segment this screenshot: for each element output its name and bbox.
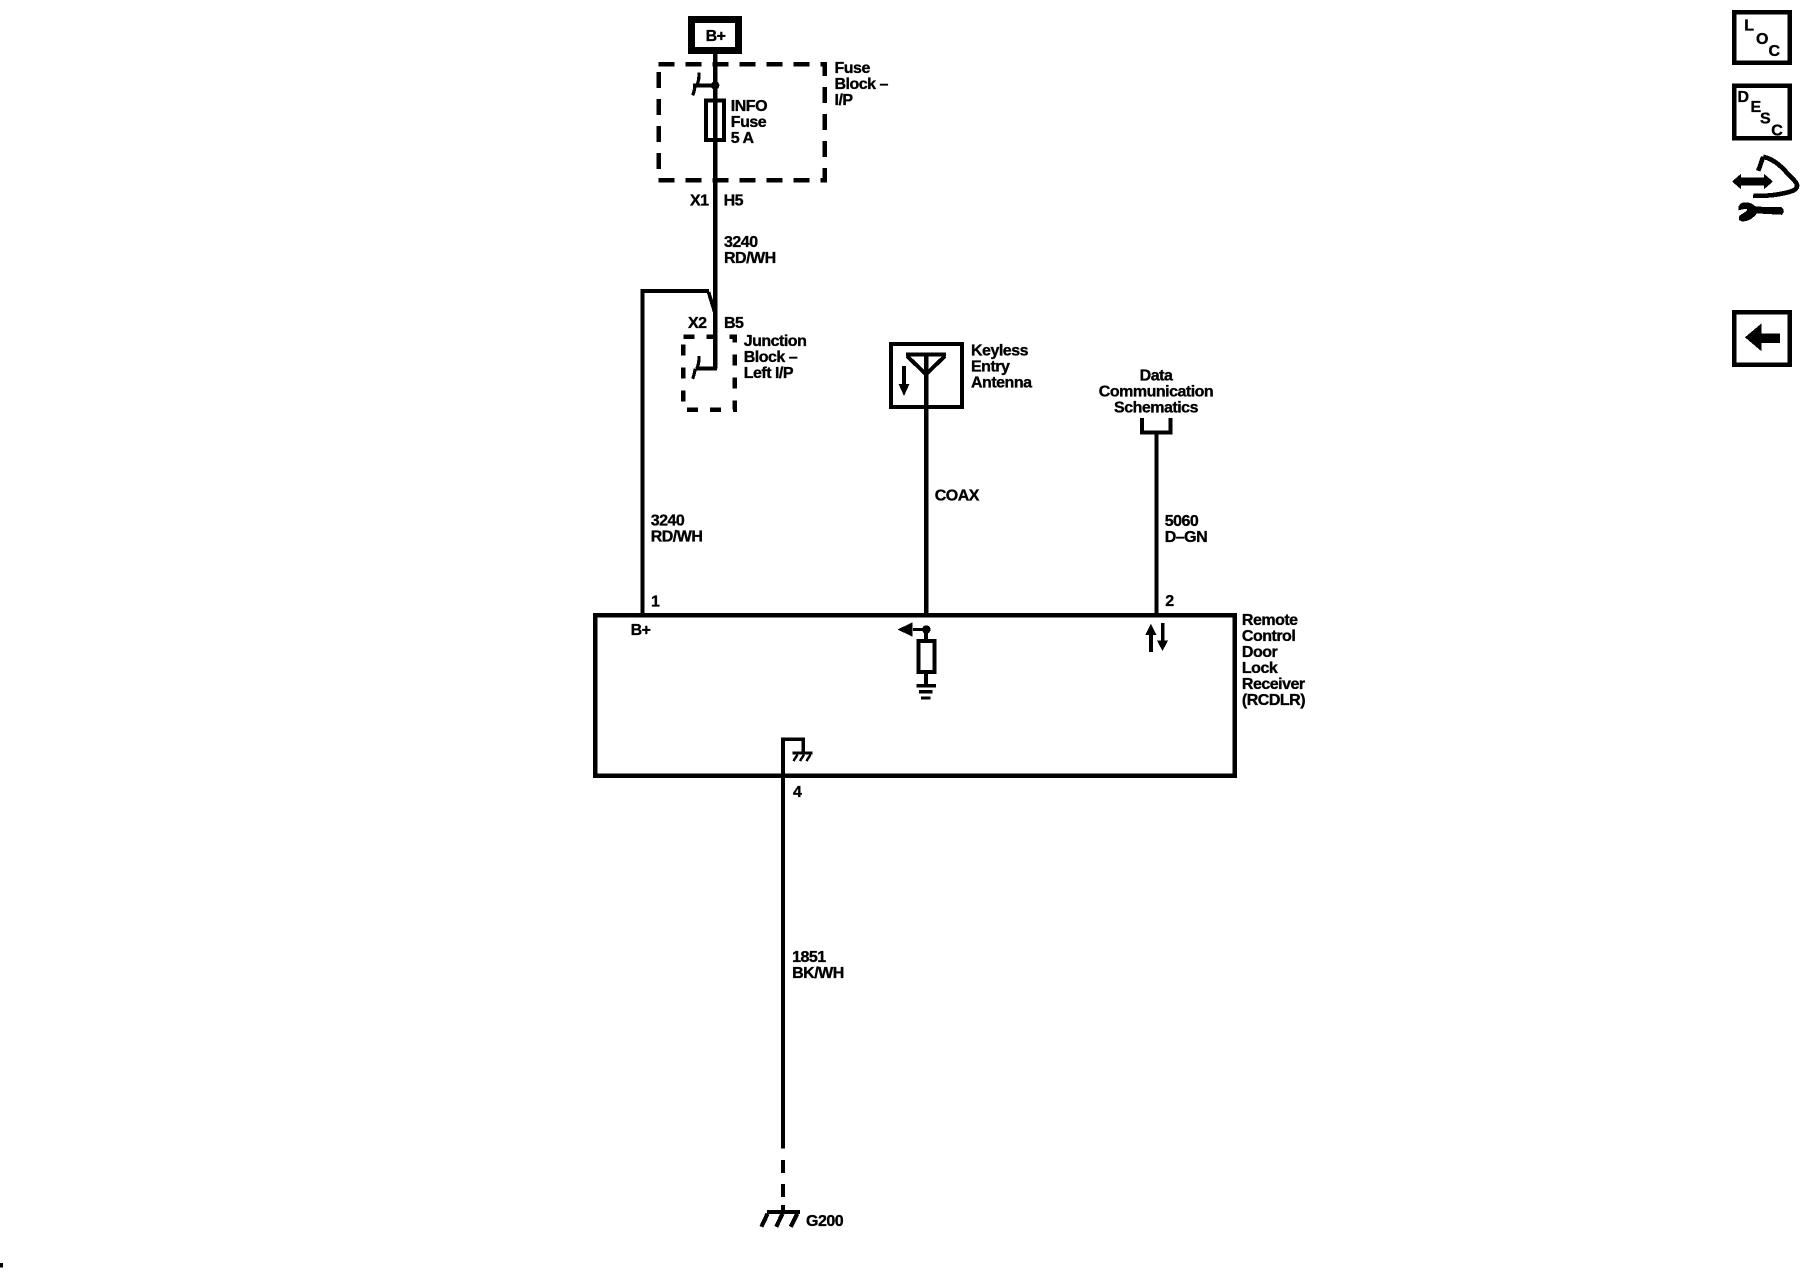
svg-text:5060: 5060 (1165, 513, 1199, 530)
svg-text:Block –: Block – (744, 349, 798, 366)
svg-text:Entry: Entry (971, 359, 1010, 376)
svg-text:Fuse: Fuse (731, 114, 767, 131)
svg-text:H5: H5 (724, 193, 744, 210)
svg-text:RD/WH: RD/WH (724, 250, 776, 267)
svg-text:G200: G200 (806, 1213, 844, 1230)
svg-text:Keyless: Keyless (971, 343, 1029, 360)
svg-text:C: C (1771, 122, 1783, 139)
svg-text:D–GN: D–GN (1165, 529, 1207, 546)
svg-text:Lock: Lock (1242, 660, 1278, 677)
svg-text:Schematics: Schematics (1114, 400, 1199, 417)
svg-text:1851: 1851 (792, 949, 826, 966)
svg-text:(RCDLR): (RCDLR) (1242, 692, 1305, 709)
svg-text:RD/WH: RD/WH (651, 529, 703, 546)
svg-text:O: O (1756, 31, 1768, 48)
svg-text:C: C (1769, 43, 1781, 60)
svg-text:COAX: COAX (935, 488, 980, 505)
svg-text:Data: Data (1140, 368, 1173, 385)
svg-text:Door: Door (1242, 644, 1278, 661)
svg-text:Fuse: Fuse (835, 60, 871, 77)
svg-text:Receiver: Receiver (1242, 676, 1305, 693)
svg-text:D: D (1738, 89, 1749, 106)
svg-text:3240: 3240 (724, 234, 758, 251)
svg-text:L: L (1744, 18, 1754, 35)
svg-text:I/P: I/P (835, 92, 854, 109)
svg-text:Block –: Block – (835, 76, 889, 93)
svg-text:X2: X2 (688, 315, 707, 332)
svg-text:X1: X1 (690, 193, 709, 210)
svg-text:S: S (1760, 111, 1771, 128)
svg-text:Communication: Communication (1099, 384, 1213, 401)
svg-text:B+: B+ (631, 622, 651, 639)
svg-text:Antenna: Antenna (971, 375, 1032, 392)
svg-text:BK/WH: BK/WH (792, 965, 844, 982)
svg-text:5 A: 5 A (731, 130, 755, 147)
svg-text:Junction: Junction (744, 333, 807, 350)
svg-text:Remote: Remote (1242, 612, 1298, 629)
svg-text:B+: B+ (706, 28, 726, 45)
svg-text:3240: 3240 (651, 513, 685, 530)
svg-text:Control: Control (1242, 628, 1295, 645)
svg-text:4: 4 (793, 784, 802, 801)
svg-text:1: 1 (651, 593, 660, 610)
svg-text:B5: B5 (724, 315, 744, 332)
svg-text:Left I/P: Left I/P (744, 365, 794, 382)
svg-text:INFO: INFO (731, 98, 767, 115)
svg-text:2: 2 (1165, 593, 1174, 610)
